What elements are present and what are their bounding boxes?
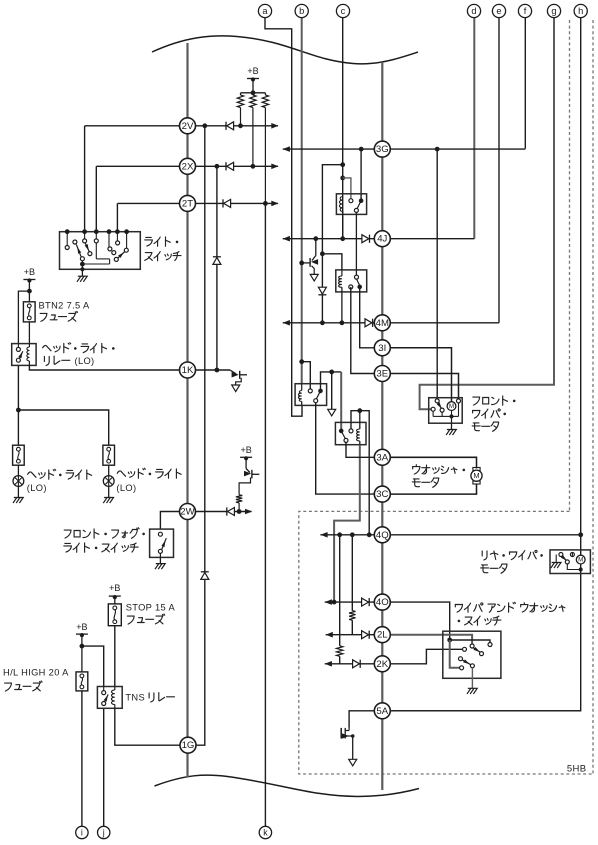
wire light switch pin5 to 2T <box>116 203 118 231</box>
relay U4 coil <box>357 429 360 441</box>
svg-text:3C: 3C <box>376 489 388 500</box>
wire +B to headlight relay contact <box>18 291 29 344</box>
fuse BTN2 7.5A <box>23 302 35 322</box>
dashed boundary 5HB block <box>569 20 571 511</box>
relay U3 contacts <box>308 389 312 393</box>
svg-text:b: b <box>299 6 304 16</box>
diode on 2V row <box>225 122 227 130</box>
resistor R2 <box>252 93 254 95</box>
relay U3 box <box>295 384 327 406</box>
rear wiper motor contacts <box>559 553 563 557</box>
front fog light switch box <box>150 529 174 557</box>
svg-text:2W: 2W <box>180 507 195 518</box>
wire 2X row <box>96 165 179 167</box>
washer motor <box>473 468 480 471</box>
wire from connector f to 3G line <box>524 18 526 149</box>
fuse H/L HIGH 20A <box>76 672 88 691</box>
resistor R1 <box>240 93 242 95</box>
label front wiper motor <box>473 397 480 405</box>
relay U1 contacts <box>349 199 353 203</box>
wire relay U2 NC to 3E <box>351 287 375 374</box>
headlight fuse right <box>103 445 115 465</box>
node 3I <box>374 340 390 356</box>
node 2T <box>180 195 196 211</box>
svg-text:H/L HIGH 20 A: H/L HIGH 20 A <box>3 668 69 678</box>
wire 2L row <box>326 634 375 636</box>
svg-text:2L: 2L <box>377 630 388 641</box>
wire 5A row <box>349 711 374 728</box>
open triangle arrow below MOSFET <box>349 759 357 766</box>
svg-text:(LO): (LO) <box>27 483 47 493</box>
wire relay U3 pivot to junction <box>321 372 342 391</box>
diode on 4O row <box>368 598 370 606</box>
relay U3 coil <box>301 384 303 391</box>
label rear wiper motor <box>482 551 487 560</box>
svg-text:4Q: 4Q <box>376 530 389 541</box>
svg-text:3G: 3G <box>376 144 389 155</box>
light switch ground <box>80 267 84 271</box>
svg-text:+B: +B <box>247 66 258 76</box>
arrow 2T row <box>271 201 278 207</box>
front wiper motor contacts <box>435 399 439 403</box>
TNS relay contact <box>103 687 105 691</box>
svg-text:f: f <box>524 6 527 16</box>
headlight relay contact <box>17 344 19 348</box>
node 3A <box>374 449 390 465</box>
svg-text:4O: 4O <box>376 597 389 608</box>
svg-text:(LO): (LO) <box>116 483 136 493</box>
diode on zener branch <box>318 294 326 296</box>
label front fog light switch <box>64 530 71 538</box>
svg-text:+B: +B <box>76 622 87 632</box>
wire relay U4 coil down to 4O <box>334 445 360 602</box>
wire 2X junction down to 1K line <box>216 166 218 256</box>
connector d <box>467 4 480 17</box>
wire 2T junction down to connector k <box>264 203 266 826</box>
label wiper washer switch <box>455 605 462 613</box>
wire relay U3 NC down to 3C <box>316 403 375 494</box>
svg-text:(LO): (LO) <box>75 356 95 366</box>
svg-text:1K: 1K <box>182 365 194 376</box>
relay U2 box <box>336 270 367 292</box>
headlight bulb right <box>108 465 110 476</box>
node 3G <box>374 141 390 157</box>
svg-text:2X: 2X <box>182 161 194 172</box>
svg-text:j: j <box>102 827 105 837</box>
node 2L <box>374 627 390 643</box>
ground headlight right <box>108 486 110 497</box>
node 4O <box>374 594 390 610</box>
arrow 2V row <box>271 123 278 129</box>
arrow 3G row <box>283 146 290 152</box>
TNS relay box <box>97 687 122 709</box>
svg-text:a: a <box>262 6 268 16</box>
node 1G <box>180 737 196 753</box>
wire from connector d to 4J line <box>473 18 475 239</box>
svg-text:g: g <box>551 6 556 16</box>
wire 2V row <box>85 125 180 127</box>
arrow 4J row <box>283 236 290 242</box>
connector e <box>492 4 505 17</box>
wire 2K row <box>325 663 375 665</box>
connector k <box>259 826 271 838</box>
svg-text:+B: +B <box>109 583 120 593</box>
label light switch <box>145 237 153 246</box>
connector i <box>81 826 83 828</box>
diode on 4M row <box>372 319 374 327</box>
svg-text:TNS: TNS <box>125 693 145 703</box>
wiper washer switch box <box>443 631 501 678</box>
svg-text:2V: 2V <box>182 121 194 132</box>
svg-text:3E: 3E <box>376 369 388 380</box>
inline connector below +B <box>245 458 247 469</box>
wire 2T row <box>117 202 179 204</box>
resistor above 2W row <box>236 495 242 503</box>
ground wiper switch <box>471 668 473 688</box>
inline connector at 1K <box>230 370 236 374</box>
svg-text:2K: 2K <box>376 659 388 670</box>
ground front wiper motor <box>451 416 453 423</box>
label headlight right <box>117 471 125 476</box>
TNS relay coil <box>114 687 116 691</box>
wire light switch pin3 to 2X <box>95 166 97 231</box>
node 2K <box>374 656 390 672</box>
svg-text:h: h <box>578 6 583 16</box>
arrow 4O row <box>325 599 332 605</box>
top break curve <box>152 36 418 64</box>
connector b <box>295 4 308 17</box>
diode on 2X row <box>225 162 227 170</box>
wire from connector e to 4M line <box>498 18 500 323</box>
connector h <box>574 4 587 17</box>
wire 1K to inline connector <box>196 369 231 371</box>
light switch terminal dots <box>65 229 70 234</box>
open triangle arrow below junction <box>331 372 333 409</box>
wire TNS coil to 1G <box>115 708 180 745</box>
relay U4 contacts <box>339 429 344 434</box>
arrow 2X row <box>271 164 278 170</box>
relay U2 contacts <box>355 275 359 279</box>
arrow 4Q row <box>320 532 327 538</box>
wire TNS contact to connector j <box>103 708 105 826</box>
svg-text:3A: 3A <box>376 452 388 463</box>
wiper washer switch contacts <box>447 638 452 643</box>
relay U4 box <box>335 422 366 444</box>
svg-text:BTN2 7.5 A: BTN2 7.5 A <box>39 301 90 311</box>
MOSFET Q1 <box>340 728 342 739</box>
diode on 2T row <box>222 199 224 207</box>
svg-text:1G: 1G <box>182 740 195 751</box>
wire junction down to relay U4 pivot <box>340 372 342 431</box>
wire from connector b <box>301 18 303 384</box>
node 4J <box>374 231 390 247</box>
relay U1 box <box>336 194 366 215</box>
wire 3E to front wiper motor contact <box>390 374 458 400</box>
svg-text:c: c <box>341 6 346 16</box>
diode on 4J row <box>369 235 371 243</box>
node 2X <box>180 158 196 174</box>
svg-text:M: M <box>449 403 454 410</box>
wire 4Q branch to 2L resistor <box>351 535 353 611</box>
diode on 2K row <box>359 660 361 668</box>
ground fog switch <box>159 553 161 557</box>
wire +B to TNS contact <box>82 646 104 686</box>
wire relay U3 feeds from a/b lines <box>299 359 304 364</box>
svg-text:4M: 4M <box>376 318 389 329</box>
diode on 2L row <box>368 631 370 639</box>
svg-text:3I: 3I <box>378 343 386 354</box>
wire light switch pin2 to 2V <box>84 126 86 232</box>
svg-text:2T: 2T <box>182 198 193 209</box>
wire STOP fuse to TNS coil <box>114 626 116 687</box>
fuse STOP 15A <box>108 604 121 626</box>
headlight bulb left <box>17 465 19 476</box>
svg-text:i: i <box>81 827 83 837</box>
wire relay U1 arm to relay U2 contact <box>355 213 357 276</box>
diode on 2X-1K line <box>213 256 221 258</box>
node 2W <box>180 504 196 520</box>
wire 2W row <box>160 512 179 530</box>
svg-text:5A: 5A <box>376 706 388 717</box>
svg-text:+B: +B <box>240 445 251 455</box>
node 5A <box>374 703 390 719</box>
right bus vertical <box>381 62 383 790</box>
svg-text:d: d <box>471 6 476 16</box>
wire 4M row <box>283 322 375 324</box>
arrow 2W row <box>245 509 252 515</box>
headlight relay coil <box>28 344 30 347</box>
svg-text:e: e <box>496 6 501 16</box>
label washer motor <box>413 465 420 474</box>
front wiper motor box <box>429 398 463 424</box>
wire relay coil to 1K <box>29 365 179 370</box>
relay U1 coil <box>339 197 342 212</box>
bottom break curve <box>155 775 420 796</box>
node 2V <box>180 118 196 134</box>
headlight fuse left <box>13 445 25 465</box>
wire 3G junction to front wiper motor <box>436 149 438 398</box>
wire 4J row <box>283 238 375 240</box>
inline connector to b-line <box>315 239 317 256</box>
wire 3G row <box>283 148 375 150</box>
wire 3A to washer motor <box>390 457 476 468</box>
svg-text:k: k <box>263 827 268 837</box>
connector f <box>518 4 531 17</box>
light switch contacts <box>66 232 68 246</box>
arrow 4M row <box>283 320 290 326</box>
diode on 2W row <box>226 507 228 515</box>
wire from connector c <box>342 18 344 239</box>
svg-text:+B: +B <box>24 267 35 277</box>
relay U2 coil <box>341 270 343 276</box>
svg-text:STOP 15 A: STOP 15 A <box>126 603 176 613</box>
connector c <box>336 4 349 17</box>
node 3E <box>374 366 390 382</box>
headlight relay box <box>12 344 36 366</box>
wire from connector h <box>392 18 581 711</box>
wire relay to headlights <box>17 365 19 445</box>
rear wiper motor box <box>550 550 590 574</box>
wire 2V junction down to 1G <box>204 126 206 572</box>
resistor feed bar <box>241 92 266 94</box>
svg-text:5HB: 5HB <box>567 764 587 775</box>
node 1K <box>180 362 196 378</box>
node 3C <box>374 486 390 502</box>
wire zener branch to relay U2 <box>320 251 325 256</box>
wire relay U1 feeds <box>340 162 345 167</box>
wire relay U2 pivot to 3I <box>360 287 375 348</box>
wire relay U4 NC loop to 4Q <box>351 411 369 535</box>
wire from connector a <box>265 18 302 417</box>
wire relay U4 arm to 3A <box>346 443 374 458</box>
wire washer motor to 3C <box>390 484 476 494</box>
arrow 2L row <box>326 632 333 638</box>
svg-text:4J: 4J <box>377 234 387 245</box>
node 4M <box>374 315 390 331</box>
ground headlight left <box>17 486 19 497</box>
connector a <box>258 4 271 17</box>
wire 3I to front wiper motor M <box>390 348 451 402</box>
wire fuse to relay coil <box>28 322 30 344</box>
connector j <box>98 826 110 838</box>
diode on 2V-1G line <box>201 571 209 573</box>
wire H/L fuse to connector i <box>81 691 83 827</box>
label headlight relay <box>43 345 51 350</box>
label headlight left <box>28 472 36 477</box>
svg-text:M: M <box>473 471 479 480</box>
wire from connector g <box>420 18 554 410</box>
light switch box <box>60 232 141 270</box>
connector g <box>547 4 560 17</box>
node 4Q <box>374 527 390 543</box>
wire 4Q branch to 2K resistor <box>339 535 341 646</box>
wire 4O row <box>325 601 375 603</box>
left bus vertical <box>186 43 188 777</box>
wire 4Q row <box>320 534 374 536</box>
arrow 2K row <box>325 661 332 667</box>
front fog light switch contacts <box>158 532 162 536</box>
svg-text:M: M <box>578 557 583 564</box>
resistor R3 <box>264 93 266 95</box>
